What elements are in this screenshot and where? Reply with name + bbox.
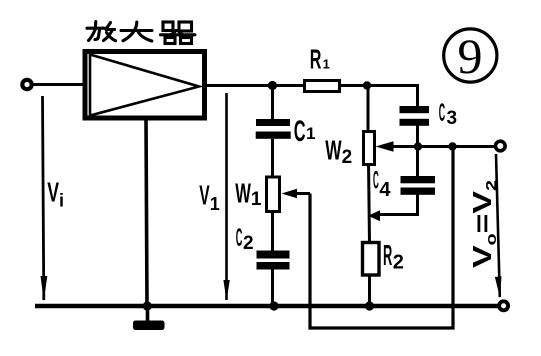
wire W2 through to R2 xyxy=(369,162,370,243)
放 xyxy=(94,22,97,27)
wire R2 to rail xyxy=(368,275,371,306)
V1 measurement line xyxy=(225,93,228,300)
ground xyxy=(146,306,150,321)
node junction at C1 top xyxy=(268,81,277,90)
svg-text:Vo=V2: Vo=V2 xyxy=(467,180,500,268)
resistor R1 xyxy=(305,81,340,92)
feedback loop wire W1 wiper to output column xyxy=(310,147,453,329)
capacitor C4 xyxy=(401,176,436,183)
svg-text:9: 9 xyxy=(458,28,483,84)
Vo measurement line xyxy=(496,154,500,297)
capacitor C3 xyxy=(400,106,430,113)
大 xyxy=(121,29,152,32)
output terminal bottom xyxy=(499,301,508,310)
wire junction R1 down to W2 xyxy=(367,86,370,134)
wire amplifier bottom to ground xyxy=(146,120,147,306)
amplifier U1 xyxy=(85,52,205,119)
node junction C2 bottom at rail xyxy=(269,301,278,310)
W2 wiper arrow xyxy=(376,141,394,151)
arrow into W2 column xyxy=(368,210,380,221)
器 xyxy=(163,22,173,31)
wire junction to output terminal xyxy=(418,145,495,148)
capacitor C1 xyxy=(256,119,290,126)
wire amplifier output to R1 xyxy=(204,84,305,87)
potentiometer W2 xyxy=(364,132,375,165)
node junction C3/C4 wiper xyxy=(414,142,422,150)
wire W1 to C2 xyxy=(271,212,274,253)
wire node to C1 xyxy=(271,86,274,122)
W1 wiper arrow xyxy=(282,189,298,199)
node junction R2 bottom at rail xyxy=(365,301,374,310)
wire C2 to ground rail xyxy=(271,270,274,307)
input terminal xyxy=(22,80,31,89)
node junction output column xyxy=(448,142,456,150)
bottom rail wire xyxy=(35,304,499,308)
wire C1 to W1 xyxy=(271,139,274,178)
node junction at R1 right xyxy=(363,81,371,89)
figure number 9 xyxy=(444,29,497,82)
Vi measurement line xyxy=(43,96,44,300)
resistor R2 xyxy=(363,243,380,276)
wire R1 to corner above C3 xyxy=(339,86,418,108)
node junction at ground xyxy=(143,301,152,310)
label 放大器 (drawn strokes) xyxy=(87,22,195,44)
output terminal top xyxy=(496,141,506,151)
wire C4 bottom to W2/R2 column xyxy=(378,195,418,215)
wire C3 bottom to C4 top through junction xyxy=(416,126,419,178)
capacitor C2 xyxy=(257,251,290,259)
potentiometer W1 xyxy=(267,177,280,212)
wire input to amplifier xyxy=(34,83,85,86)
